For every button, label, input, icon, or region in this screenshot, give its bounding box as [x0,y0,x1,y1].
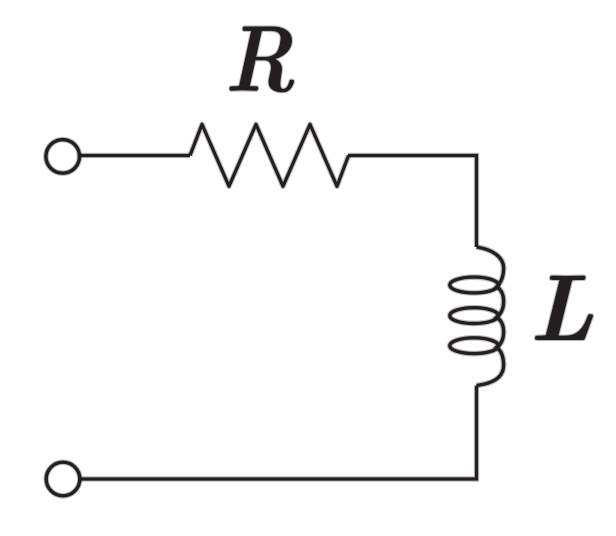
inductor L loop 3 [450,338,498,354]
inductor L right-side arcs [477,247,504,386]
label R [230,27,294,93]
wire from resistor to top-right corner and down to inductor [348,156,477,248]
wire from inductor to bottom-right corner and to T2 [81,386,477,480]
resistor R zigzag [190,124,349,186]
inductor L loop 1 [450,277,498,293]
inductor L loop 2 [450,308,498,324]
terminal T1 (top-left) [46,140,80,174]
wire from T1 to resistor [81,153,191,158]
terminal T2 (bottom-left) [46,462,80,496]
label L [535,276,593,340]
